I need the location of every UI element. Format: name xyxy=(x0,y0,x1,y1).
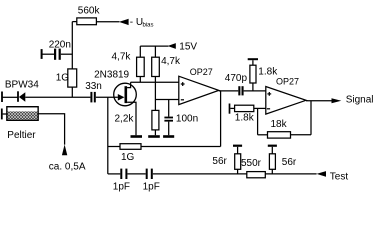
resistor R 4,7k left xyxy=(137,46,145,82)
svg-text:bias: bias xyxy=(143,22,154,28)
wire xyxy=(254,107,266,109)
wire +input rail xyxy=(131,81,179,83)
svg-text:470p: 470p xyxy=(225,73,248,84)
svg-text:1pF: 1pF xyxy=(143,182,160,193)
svg-text:1.8k: 1.8k xyxy=(235,113,255,124)
arrow Signal xyxy=(332,98,342,103)
svg-text:2,2k: 2,2k xyxy=(115,113,135,124)
wire xyxy=(61,53,73,55)
wire opamp1 output xyxy=(219,90,239,92)
resistor 2,2k xyxy=(152,110,159,135)
arrow Test (left) xyxy=(317,171,327,177)
resistor 1G (horizontal) xyxy=(120,144,141,150)
svg-text:220n: 220n xyxy=(49,40,71,51)
svg-text:15V: 15V xyxy=(179,42,197,53)
resistor R 4,7k right xyxy=(152,46,160,110)
resistor 1.8k (series, horizontal) xyxy=(235,105,254,111)
photodiode BPW34 xyxy=(18,91,25,102)
node test-in terminal tick xyxy=(229,104,231,114)
op-amp U1 OP27 xyxy=(179,76,219,104)
svg-text:1G: 1G xyxy=(56,73,70,84)
wire xyxy=(96,21,119,23)
wire vertical gate to test rail xyxy=(107,97,109,174)
wire feedback 18k path xyxy=(258,101,311,135)
svg-text:- U: - U xyxy=(130,17,143,28)
capacitor 1pF (second) xyxy=(146,169,153,179)
resistor 550r xyxy=(247,172,265,178)
arrow Ubias (left) xyxy=(119,19,129,25)
svg-text:4,7k: 4,7k xyxy=(112,52,132,63)
Peltier element box xyxy=(7,107,38,121)
node Peltier terminal tick xyxy=(1,109,3,120)
ground (100n) xyxy=(163,135,174,138)
wire gate xyxy=(96,96,118,98)
wire xyxy=(230,107,234,109)
svg-text:100n: 100n xyxy=(176,114,198,125)
svg-text:56r: 56r xyxy=(282,157,297,168)
svg-text:550r: 550r xyxy=(241,158,262,169)
arrow current up xyxy=(62,145,67,156)
svg-text:33n: 33n xyxy=(85,81,102,92)
capacitor 220n xyxy=(54,49,61,60)
svg-text:2N3819: 2N3819 xyxy=(94,69,129,80)
wire test rail xyxy=(108,173,317,175)
wire xyxy=(43,53,55,55)
arrow 15V xyxy=(168,43,176,49)
capacitor 33n xyxy=(90,92,95,103)
wire opamp2 output xyxy=(306,100,332,102)
capacitor 220n terminal tick xyxy=(41,49,43,59)
wire vertical bias branch xyxy=(71,22,73,98)
wire 15V rail xyxy=(140,45,168,47)
wire -input rail xyxy=(155,99,178,101)
svg-text:1pF: 1pF xyxy=(113,182,130,193)
wire xyxy=(38,114,65,145)
svg-text:1G: 1G xyxy=(121,152,135,163)
op-amp U2 OP27 xyxy=(266,87,306,115)
wire feedback vertical xyxy=(220,91,222,147)
resistor 56r right with ground bar xyxy=(268,145,277,174)
svg-text:18k: 18k xyxy=(271,119,288,130)
transistor Q1 2N3819 xyxy=(114,82,137,135)
resistor 560k xyxy=(77,18,97,25)
svg-text:OP27: OP27 xyxy=(276,76,299,86)
capacitor 100n xyxy=(164,100,173,136)
svg-text:OP27: OP27 xyxy=(190,67,213,77)
resistor 1G (vertical) xyxy=(68,69,77,87)
svg-text:Peltier: Peltier xyxy=(7,130,36,141)
wire xyxy=(72,21,77,23)
svg-text:56r: 56r xyxy=(212,156,227,167)
wire 1G feedback rail xyxy=(108,146,221,148)
resistor 56r left with ground bar xyxy=(233,145,242,174)
wire xyxy=(244,90,266,92)
resistor 18k xyxy=(268,132,291,138)
svg-text:ca. 0,5A: ca. 0,5A xyxy=(49,161,86,172)
svg-text:Test: Test xyxy=(330,172,349,183)
svg-text:Signal: Signal xyxy=(346,95,374,106)
capacitor 470p xyxy=(238,86,243,95)
resistor 1.8k (pullup) with supply bar xyxy=(248,58,258,91)
ground (2,2k) xyxy=(148,135,160,138)
node IN terminal tick (photodiode input) xyxy=(1,92,3,103)
svg-text:560k: 560k xyxy=(78,5,101,16)
wire xyxy=(3,113,7,115)
wire xyxy=(25,96,90,98)
svg-text:4,7k: 4,7k xyxy=(161,56,181,67)
svg-text:BPW34: BPW34 xyxy=(5,80,39,91)
label -Ubias xyxy=(130,17,154,28)
ground (JFET source) xyxy=(131,135,143,138)
wire xyxy=(2,96,18,98)
capacitor 1pF (first) xyxy=(120,169,127,179)
